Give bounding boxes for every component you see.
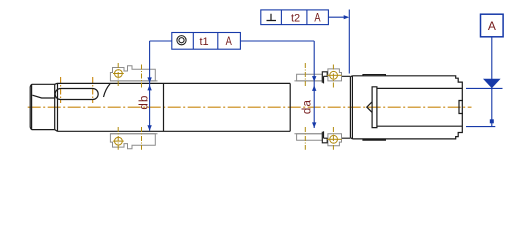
svg-text:A: A	[488, 19, 496, 33]
svg-text:A: A	[314, 10, 320, 24]
svg-text:t1: t1	[200, 36, 209, 48]
svg-text:t2: t2	[291, 13, 300, 25]
svg-text:da: da	[302, 99, 314, 114]
svg-text:db: db	[139, 94, 151, 109]
svg-text:A: A	[226, 34, 232, 48]
